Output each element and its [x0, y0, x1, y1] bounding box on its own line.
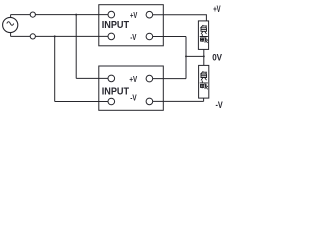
power supply U1 box: [99, 5, 164, 46]
AC sine wave: [7, 22, 14, 26]
load R2 text 载: [200, 81, 208, 89]
U2 output terminal +V: [146, 75, 153, 82]
U2 output terminal -V: [146, 98, 153, 105]
svg-text:-V: -V: [130, 32, 136, 42]
wire: U2 +V out to series link: [153, 78, 186, 80]
wire: load R1 bottom to 0V rail: [203, 49, 205, 56]
node series-link junction: [185, 55, 187, 57]
wire: top row terminal to box1: [35, 14, 108, 16]
wire: U1 -V out to series link: [153, 36, 186, 38]
U2 input terminal top-left: [108, 75, 115, 82]
U1 input terminal bottom-left: [108, 33, 115, 40]
wire: corner to supply2 bottom-left terminal: [55, 101, 108, 103]
svg-text:-V: -V: [130, 93, 137, 103]
svg-text:+V: +V: [213, 4, 220, 14]
load R2 box: [199, 65, 209, 98]
node J2 (junction top wire): [75, 14, 77, 16]
svg-text:INPUT: INPUT: [102, 86, 129, 97]
svg-text:-V: -V: [216, 100, 223, 110]
wire: vertical drop to supply2 input: [75, 15, 77, 79]
wire: series link vertical: [185, 37, 187, 79]
load R2 text 负: [201, 72, 207, 81]
wire: AC top stub: [10, 15, 12, 18]
AC source G1: [3, 17, 18, 32]
wire: corner to supply2 top-left terminal: [76, 77, 108, 79]
U1 output terminal -V: [146, 33, 153, 40]
svg-text:+V: +V: [130, 10, 138, 20]
wire: AC bottom stub: [10, 33, 12, 37]
terminal plug P2: [30, 34, 35, 39]
wire: vertical drop to supply2 lower input: [54, 36, 56, 102]
wire: U2 -V out (-V rail): [153, 100, 204, 102]
U1 input terminal top-left: [108, 11, 115, 18]
wire: 0V rail to load R2 top: [203, 56, 205, 65]
wire: U1 +V to +V rail corner: [153, 15, 207, 21]
svg-text:INPUT: INPUT: [102, 20, 129, 31]
wire: bottom row terminal to box1: [35, 35, 108, 37]
svg-text:0V: 0V: [212, 52, 222, 62]
node J1 (junction bottom wire): [54, 35, 56, 37]
wire: load R2 bottom stub: [203, 98, 205, 101]
terminal plug P1: [30, 12, 35, 17]
U2 input terminal bottom-left: [108, 98, 115, 105]
svg-text:+V: +V: [129, 74, 137, 84]
load R1 box: [198, 21, 208, 50]
wire: top row AC to terminal: [11, 14, 31, 16]
load R1 text 载: [200, 35, 208, 43]
U1 output terminal +V: [146, 11, 153, 18]
power supply U2 box: [99, 66, 164, 110]
wire: bottom row AC to terminal: [11, 35, 31, 37]
load R1 text 负: [201, 25, 207, 34]
node 0V junction: [203, 55, 205, 57]
wire: 0V rail: [186, 55, 204, 57]
